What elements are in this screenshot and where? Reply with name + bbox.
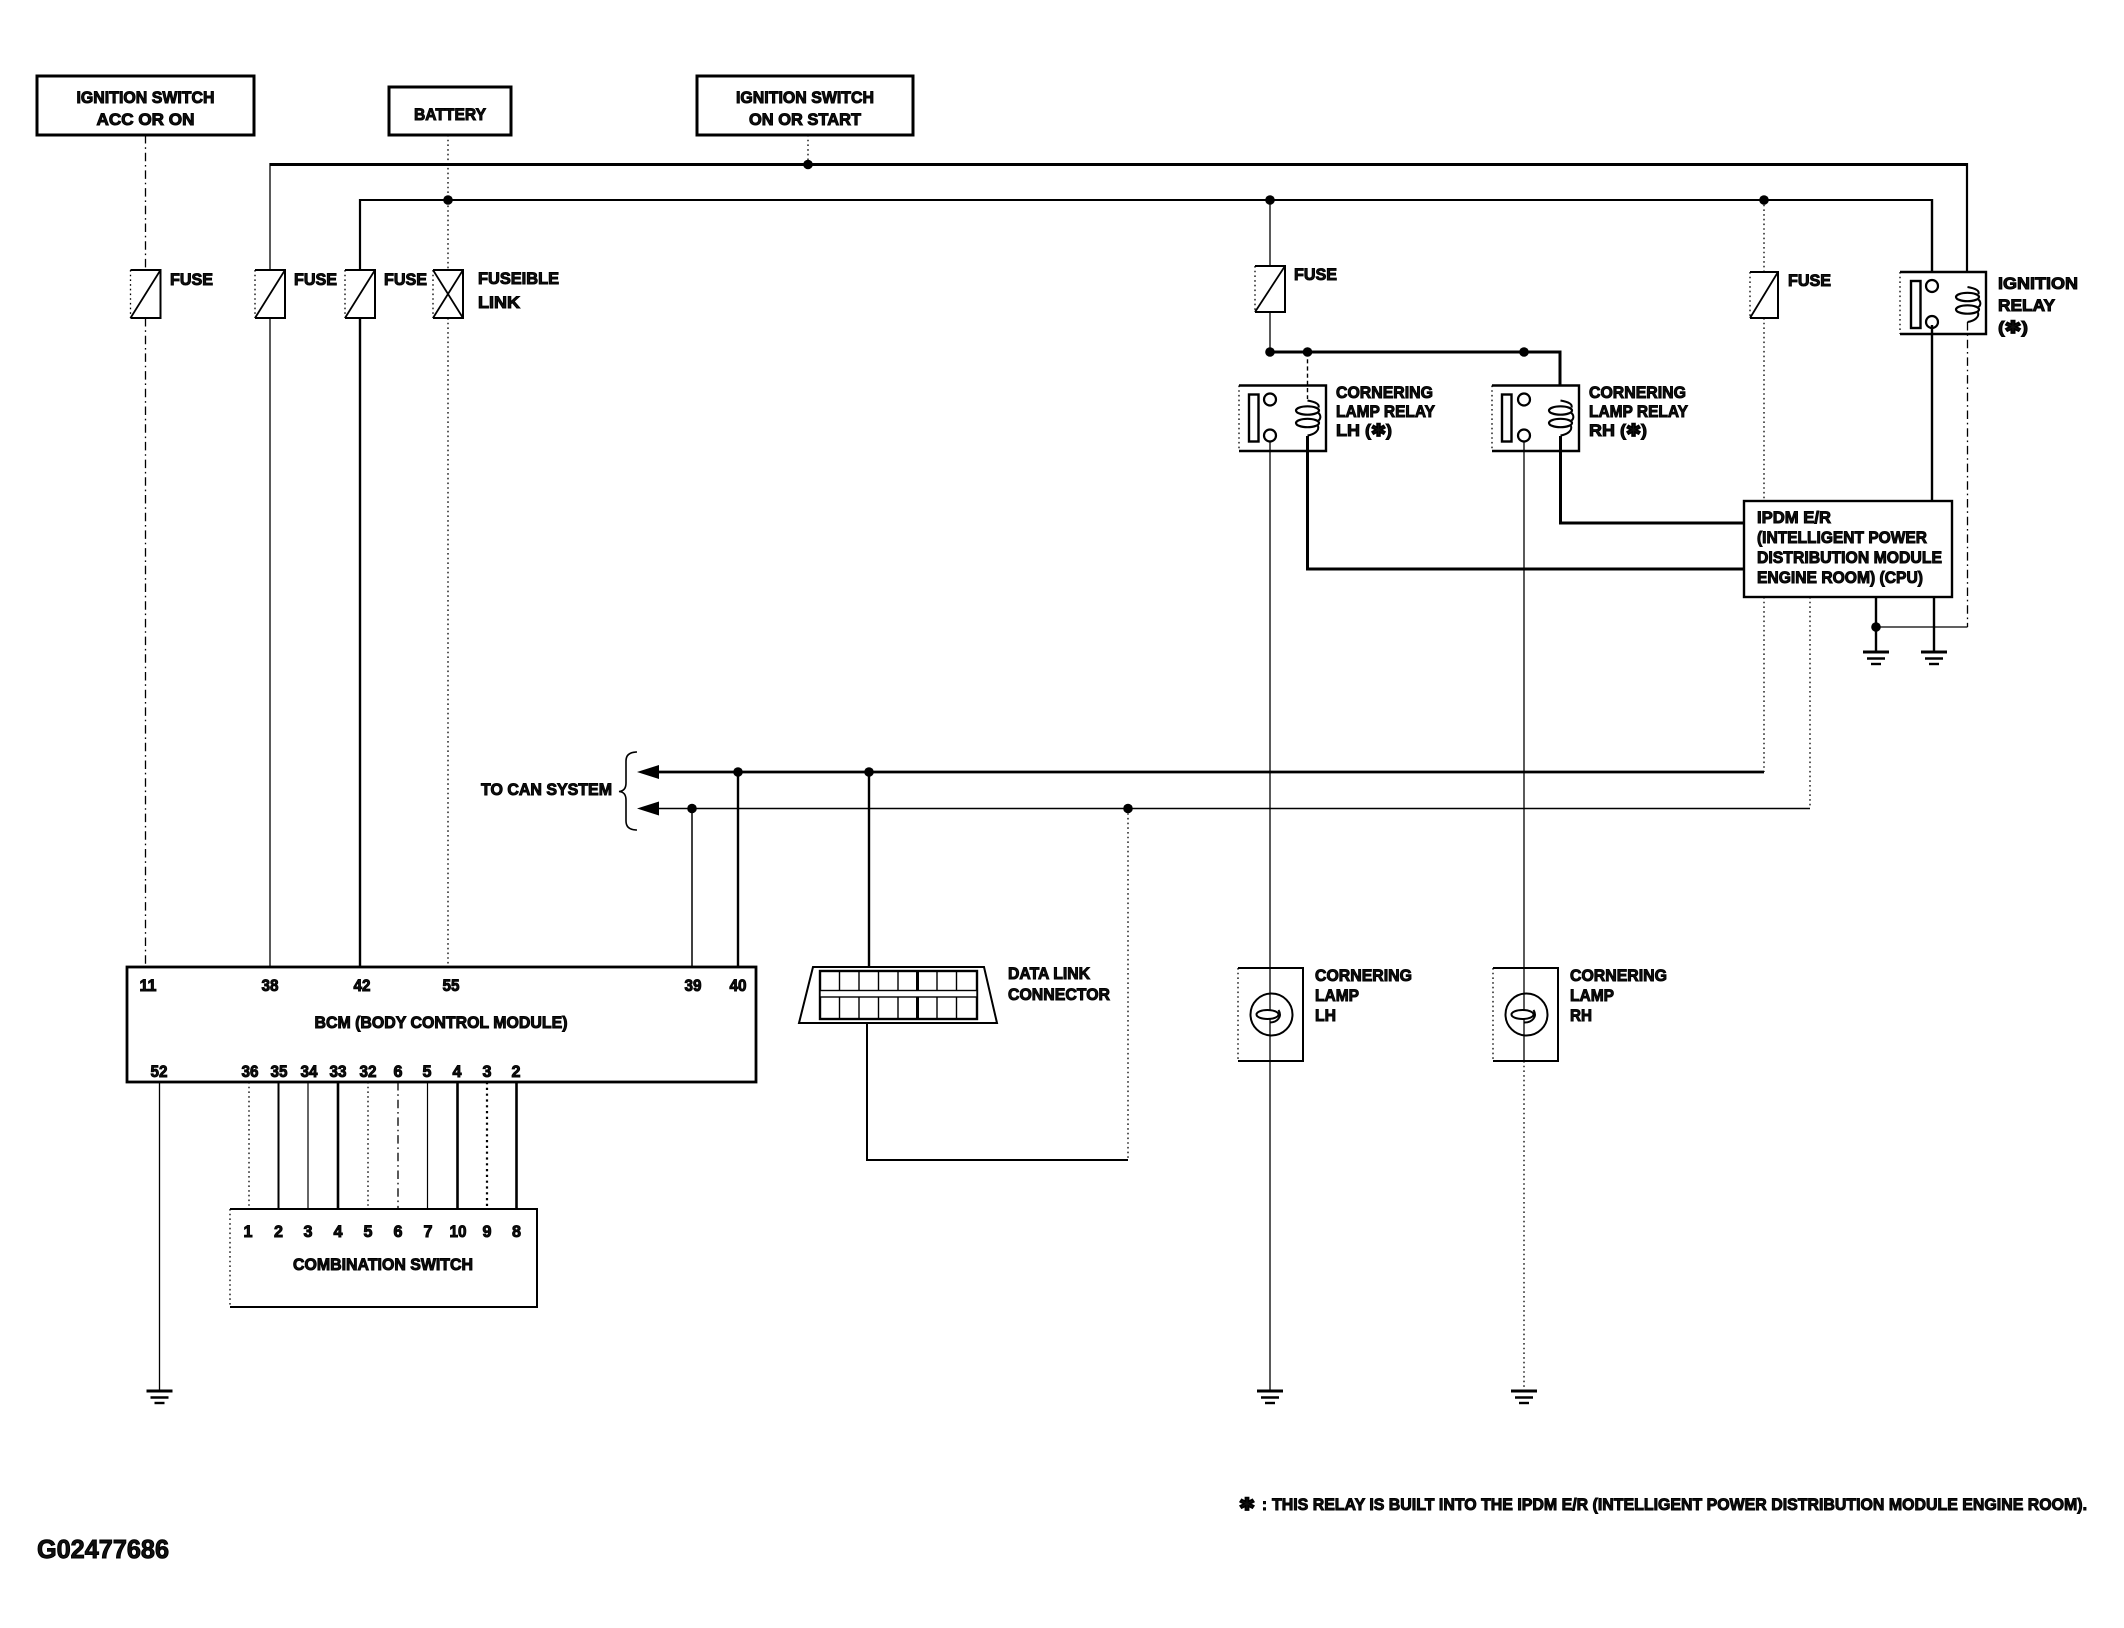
wire BCM33-CS4 <box>337 1082 340 1209</box>
label data link connector <box>1008 964 1110 1004</box>
IPDM E/R box <box>1744 501 1952 597</box>
combination switch box <box>230 1209 537 1307</box>
label cornering lamp LH <box>1315 966 1412 1025</box>
brace to-can-system <box>619 752 637 830</box>
wire fuse F1 to BCM pin 11 <box>145 318 147 967</box>
wire lamp LH to ground <box>1269 1061 1271 1391</box>
svg-text:5: 5 <box>423 1062 432 1081</box>
wire L2 to fuse F5 dotted <box>1763 200 1765 272</box>
wire LH coil to IPDM <box>1308 436 1745 569</box>
svg-text:FUSEIBLE: FUSEIBLE <box>478 269 559 288</box>
ground BCM 52 <box>147 1391 173 1403</box>
junction L2-ipdm fuse <box>1759 195 1769 205</box>
cornering lamp RH <box>1493 968 1558 1061</box>
ignition switch ACC-or-ON box <box>37 76 254 135</box>
svg-text:CORNERING: CORNERING <box>1589 383 1686 402</box>
data link connector <box>799 967 997 1023</box>
fuse F1 (acc) <box>131 270 214 318</box>
arrowhead CAN line 2 <box>637 802 659 816</box>
svg-text:6: 6 <box>394 1222 403 1241</box>
wire IPDM ground 1 <box>1875 597 1877 652</box>
fuse F5 (ipdm) <box>1750 271 1831 318</box>
junction relay bus LH pin <box>1265 347 1275 357</box>
junction relay bus LH coil <box>1303 347 1313 357</box>
svg-text:IGNITION SWITCH: IGNITION SWITCH <box>736 88 874 107</box>
wire BCM4-CS10 <box>456 1082 459 1209</box>
svg-text:THIS RELAY IS BUILT INTO THE I: THIS RELAY IS BUILT INTO THE IPDM E/R (I… <box>1272 1495 2087 1514</box>
svg-text:FUSE: FUSE <box>384 270 427 289</box>
svg-text:1: 1 <box>244 1222 253 1241</box>
fuse F3 <box>345 270 427 318</box>
svg-text:ON OR START: ON OR START <box>749 110 862 129</box>
cornering lamp LH <box>1238 968 1303 1061</box>
junction CAN1-DLC <box>864 767 874 777</box>
BCM box <box>127 967 756 1082</box>
svg-text:4: 4 <box>334 1222 344 1241</box>
wire CAN1 to data link connector <box>868 772 870 992</box>
wire BCM pin 52 to ground <box>159 1082 161 1391</box>
wire CAN1 to IPDM dotted <box>1763 597 1765 772</box>
svg-text:55: 55 <box>443 976 460 995</box>
svg-text:36: 36 <box>242 1062 259 1081</box>
junction on bus L1 at ignition feed <box>803 160 813 170</box>
label ignition relay <box>1998 274 2078 337</box>
wire fuse F5 to IPDM dotted <box>1763 318 1765 501</box>
wire IPDM ground 2 <box>1933 597 1935 652</box>
wire L1 corner down to ignition relay coil <box>1966 163 1968 291</box>
wire LH coil top dashed <box>1307 352 1309 399</box>
arrowhead CAN line 1 <box>637 765 659 779</box>
svg-text:LAMP: LAMP <box>1570 986 1614 1005</box>
svg-text:(✱): (✱) <box>1998 318 2028 337</box>
svg-text:CORNERING: CORNERING <box>1570 966 1667 985</box>
label cornering lamp relay RH <box>1589 383 1689 440</box>
svg-text:3: 3 <box>483 1062 492 1081</box>
wire CAN2 to IPDM dotted <box>1809 597 1811 809</box>
svg-text:FUSE: FUSE <box>294 270 337 289</box>
svg-text:3: 3 <box>304 1222 313 1241</box>
svg-text:RH (✱): RH (✱) <box>1589 421 1647 440</box>
label cornering lamp relay LH <box>1336 383 1436 440</box>
wire BCM5-CS7 <box>427 1082 429 1209</box>
svg-text:G02477686: G02477686 <box>37 1534 169 1564</box>
svg-text:LH: LH <box>1315 1006 1336 1025</box>
wire CAN line 1 <box>656 771 1764 774</box>
svg-text:IGNITION SWITCH: IGNITION SWITCH <box>77 88 215 107</box>
wire DLC loop dotted riser <box>1127 809 1129 1161</box>
svg-text:8: 8 <box>512 1222 521 1241</box>
wire acc switch to fuse F1 <box>145 135 147 270</box>
combination switch pin numbers <box>244 1222 522 1241</box>
junction IPDM ground 1 <box>1871 622 1881 632</box>
wire battery to fusible link <box>447 135 449 270</box>
BCM bottom pin numbers <box>151 1062 521 1081</box>
ground IPDM 1 <box>1863 652 1889 664</box>
svg-text:LAMP RELAY: LAMP RELAY <box>1589 402 1689 421</box>
svg-text:2: 2 <box>512 1062 521 1081</box>
svg-text:ENGINE ROOM) (CPU): ENGINE ROOM) (CPU) <box>1757 568 1923 587</box>
wire L2 corner down to ignition relay pin <box>1931 199 1933 276</box>
wire ignition ON/START dotted stub <box>807 135 809 164</box>
wire CAN line 2 <box>656 808 1810 810</box>
svg-text:FUSE: FUSE <box>1788 271 1831 290</box>
svg-text:RH: RH <box>1570 1006 1592 1025</box>
ground lamp LH <box>1257 1391 1283 1403</box>
svg-text:CORNERING: CORNERING <box>1315 966 1412 985</box>
wire BCM36-CS1 dotted <box>248 1082 250 1209</box>
wire BCM2-CS8 <box>515 1082 518 1209</box>
svg-text:42: 42 <box>354 976 371 995</box>
wire fuse F4 to relay bus <box>1269 312 1271 352</box>
wire L1 corner down to fuse F2 <box>269 163 271 270</box>
junction L2-battery <box>443 195 453 205</box>
wire L2 to fuse F4 <box>1269 200 1271 266</box>
wire lamp RH to ground dotted <box>1523 1061 1525 1391</box>
wire fusible link to BCM pin 55 <box>447 318 449 967</box>
svg-text:39: 39 <box>685 976 702 995</box>
fusible link FL <box>433 269 559 318</box>
wire L2 corner down to fuse F3 <box>359 199 361 270</box>
junction CAN2-BCM39 <box>687 804 697 814</box>
fuse F4 (cornering lamp) <box>1255 265 1337 312</box>
wire ignition relay pin to IPDM <box>1931 325 1933 501</box>
svg-text:ACC OR ON: ACC OR ON <box>97 110 195 129</box>
svg-text:COMBINATION SWITCH: COMBINATION SWITCH <box>293 1255 473 1274</box>
svg-text:5: 5 <box>364 1222 373 1241</box>
wire fuse F2 to BCM pin 38 <box>269 318 271 967</box>
svg-text:IGNITION: IGNITION <box>1998 274 2078 293</box>
svg-text:(INTELLIGENT POWER: (INTELLIGENT POWER <box>1757 528 1927 547</box>
wire bus L2 (battery feed) <box>360 199 1932 201</box>
junction CAN1-BCM40 <box>733 767 743 777</box>
junction relay bus RH pin <box>1519 347 1529 357</box>
svg-text:38: 38 <box>262 976 279 995</box>
svg-text:TO CAN SYSTEM: TO CAN SYSTEM <box>481 780 612 799</box>
svg-text:9: 9 <box>483 1222 492 1241</box>
wire ignition relay coil return dashed <box>1967 322 1969 627</box>
svg-text:52: 52 <box>151 1062 168 1081</box>
svg-text:11: 11 <box>140 976 157 995</box>
ground IPDM 2 <box>1921 652 1947 664</box>
BCM top pin numbers 11 38 42 55 39 40 <box>140 976 747 995</box>
ignition switch ON-or-START box <box>697 76 913 135</box>
svg-text:33: 33 <box>330 1062 347 1081</box>
label cornering lamp RH <box>1570 966 1667 1025</box>
wire BCM35-CS2 <box>278 1082 280 1209</box>
svg-text:CONNECTOR: CONNECTOR <box>1008 985 1110 1004</box>
svg-text:2: 2 <box>274 1222 283 1241</box>
svg-text::: : <box>1262 1495 1267 1514</box>
svg-text:35: 35 <box>271 1062 288 1081</box>
svg-text:LH (✱): LH (✱) <box>1336 421 1392 440</box>
wire relay bus <box>1270 352 1560 401</box>
wire coil return to ground junction <box>1876 626 1968 628</box>
svg-text:LAMP: LAMP <box>1315 986 1359 1005</box>
wire RH coil to IPDM <box>1561 436 1745 523</box>
svg-text:CORNERING: CORNERING <box>1336 383 1433 402</box>
wire BCM6-CS6 dash-dot <box>397 1082 399 1209</box>
junction CAN2-DLC-loop <box>1123 804 1133 814</box>
wire BCM34-CS3 <box>307 1082 309 1209</box>
svg-text:RELAY: RELAY <box>1998 296 2056 315</box>
svg-text:4: 4 <box>453 1062 463 1081</box>
svg-text:40: 40 <box>730 976 747 995</box>
ground lamp RH <box>1511 1391 1537 1403</box>
svg-text:32: 32 <box>360 1062 377 1081</box>
wire CAN2 to BCM pin 39 <box>691 809 693 968</box>
svg-text:DATA LINK: DATA LINK <box>1008 964 1091 983</box>
wire CAN1 to BCM pin 40 <box>737 772 739 967</box>
wire DLC loop to CAN2 <box>867 1023 1128 1160</box>
cornering lamp relay RH <box>1492 386 1579 452</box>
wire fuse F3 to BCM pin 42 <box>359 318 361 967</box>
svg-text:IPDM E/R: IPDM E/R <box>1757 508 1831 527</box>
footnote asterisk note <box>1239 1495 2087 1514</box>
fuse F2 <box>255 270 337 318</box>
svg-text:10: 10 <box>450 1222 467 1241</box>
wire LH relay pin to lamp LH <box>1269 442 1271 969</box>
svg-text:7: 7 <box>424 1222 433 1241</box>
svg-text:BATTERY: BATTERY <box>414 105 487 124</box>
wire RH relay pin to lamp RH <box>1523 442 1525 969</box>
svg-text:34: 34 <box>301 1062 318 1081</box>
svg-text:BCM (BODY CONTROL MODULE): BCM (BODY CONTROL MODULE) <box>315 1013 568 1032</box>
wire BCM32-CS5 dotted <box>367 1082 369 1209</box>
ignition relay <box>1900 272 1986 334</box>
battery box <box>389 87 511 135</box>
svg-text:DISTRIBUTION MODULE: DISTRIBUTION MODULE <box>1757 548 1942 567</box>
svg-text:LAMP RELAY: LAMP RELAY <box>1336 402 1436 421</box>
svg-text:✱: ✱ <box>1239 1495 1255 1514</box>
wire bus L1 (ignition on/start feed) <box>270 163 1967 166</box>
svg-text:6: 6 <box>394 1062 403 1081</box>
svg-text:LINK: LINK <box>478 293 521 312</box>
svg-text:FUSE: FUSE <box>1294 265 1337 284</box>
cornering lamp relay LH <box>1239 386 1326 452</box>
wire BCM3-CS9 dotted <box>486 1082 488 1209</box>
junction L2-cornering fuse <box>1265 195 1275 205</box>
svg-text:FUSE: FUSE <box>170 270 213 289</box>
